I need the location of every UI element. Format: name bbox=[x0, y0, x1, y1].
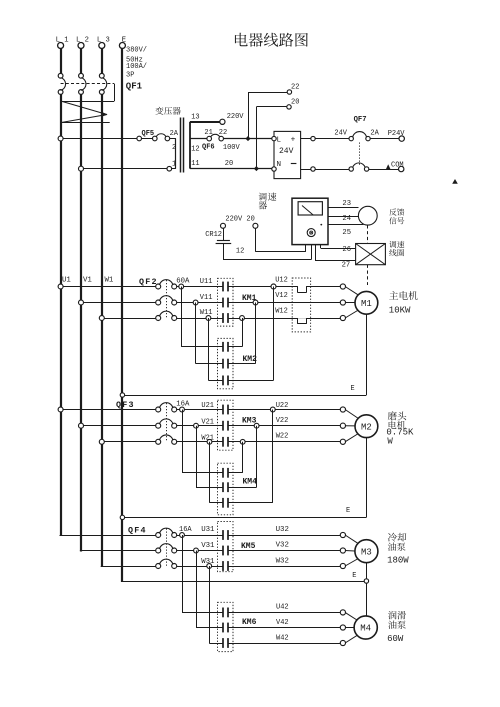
svg-text:KM5: KM5 bbox=[241, 542, 256, 551]
svg-text:QF2: QF2 bbox=[139, 277, 158, 287]
svg-text:KM4: KM4 bbox=[243, 477, 258, 486]
svg-text:QF6: QF6 bbox=[202, 144, 215, 152]
svg-text:W22: W22 bbox=[276, 432, 289, 440]
svg-text:V32: V32 bbox=[276, 542, 289, 550]
svg-text:E: E bbox=[346, 507, 350, 515]
svg-text:W21: W21 bbox=[201, 435, 214, 443]
svg-text:U21: U21 bbox=[201, 402, 214, 410]
svg-text:2A: 2A bbox=[370, 129, 379, 137]
svg-text:26: 26 bbox=[342, 246, 351, 254]
svg-text:V11: V11 bbox=[200, 294, 213, 302]
svg-text:V1: V1 bbox=[83, 277, 92, 285]
svg-text:3P: 3P bbox=[126, 72, 134, 80]
svg-text:23: 23 bbox=[342, 200, 351, 208]
svg-text:M3: M3 bbox=[361, 547, 372, 557]
svg-text:CR12: CR12 bbox=[205, 231, 222, 239]
svg-text:25: 25 bbox=[342, 229, 351, 237]
svg-text:21: 21 bbox=[204, 129, 212, 137]
svg-text:E: E bbox=[352, 572, 356, 580]
svg-text:KM6: KM6 bbox=[242, 618, 257, 627]
svg-text:100V: 100V bbox=[223, 144, 241, 152]
svg-text:220V 20: 220V 20 bbox=[225, 215, 254, 223]
svg-text:12: 12 bbox=[191, 146, 199, 154]
svg-text:W32: W32 bbox=[276, 557, 289, 565]
svg-text:V22: V22 bbox=[276, 417, 289, 425]
svg-text:W31: W31 bbox=[201, 558, 215, 566]
svg-text:180W: 180W bbox=[387, 555, 409, 565]
svg-text:24V: 24V bbox=[279, 147, 294, 156]
svg-text:12: 12 bbox=[236, 248, 244, 256]
svg-text:L: L bbox=[277, 137, 282, 145]
svg-text:24: 24 bbox=[342, 215, 351, 223]
svg-text:W12: W12 bbox=[275, 308, 288, 316]
svg-text:2A: 2A bbox=[170, 130, 179, 138]
svg-text:W: W bbox=[387, 437, 393, 447]
svg-text:U22: U22 bbox=[276, 402, 289, 410]
svg-text:22: 22 bbox=[219, 129, 227, 137]
svg-text:QF4: QF4 bbox=[128, 525, 147, 535]
svg-text:W11: W11 bbox=[200, 309, 213, 317]
svg-text:24V: 24V bbox=[334, 129, 347, 137]
svg-text:U32: U32 bbox=[276, 526, 289, 534]
svg-text:27: 27 bbox=[342, 262, 351, 270]
svg-text:380V/: 380V/ bbox=[126, 47, 147, 55]
svg-text:M1: M1 bbox=[361, 299, 372, 309]
svg-text:N: N bbox=[277, 161, 282, 169]
svg-text:U11: U11 bbox=[200, 278, 213, 286]
svg-text:QF3: QF3 bbox=[116, 400, 135, 410]
svg-text:QF7: QF7 bbox=[354, 116, 367, 124]
svg-text:20: 20 bbox=[225, 160, 233, 168]
svg-text:U12: U12 bbox=[275, 276, 288, 284]
svg-text:V12: V12 bbox=[275, 292, 288, 300]
svg-text:V21: V21 bbox=[201, 418, 214, 426]
svg-text:M2: M2 bbox=[361, 422, 372, 432]
svg-text:M4: M4 bbox=[360, 624, 371, 634]
svg-text:U1: U1 bbox=[62, 277, 71, 285]
svg-text:QF5: QF5 bbox=[142, 130, 155, 138]
svg-text:13: 13 bbox=[191, 114, 199, 122]
svg-text:COM: COM bbox=[391, 161, 404, 169]
svg-text:100A/: 100A/ bbox=[126, 63, 147, 71]
svg-text:60W: 60W bbox=[387, 634, 404, 644]
svg-text:V31: V31 bbox=[201, 542, 215, 550]
svg-text:W42: W42 bbox=[276, 634, 289, 642]
svg-text:+: + bbox=[291, 136, 296, 144]
svg-text:QF1: QF1 bbox=[126, 82, 143, 92]
svg-text:W1: W1 bbox=[105, 277, 114, 285]
svg-text:20: 20 bbox=[291, 98, 299, 106]
svg-text:11: 11 bbox=[191, 160, 199, 168]
svg-text:U42: U42 bbox=[276, 604, 289, 612]
svg-text:220V: 220V bbox=[227, 113, 245, 121]
svg-text:U31: U31 bbox=[201, 526, 215, 534]
svg-text:V42: V42 bbox=[276, 619, 289, 627]
svg-text:10KW: 10KW bbox=[389, 306, 411, 316]
svg-text:22: 22 bbox=[291, 84, 299, 92]
svg-text:KM2: KM2 bbox=[243, 355, 258, 364]
svg-text:E: E bbox=[351, 385, 355, 393]
